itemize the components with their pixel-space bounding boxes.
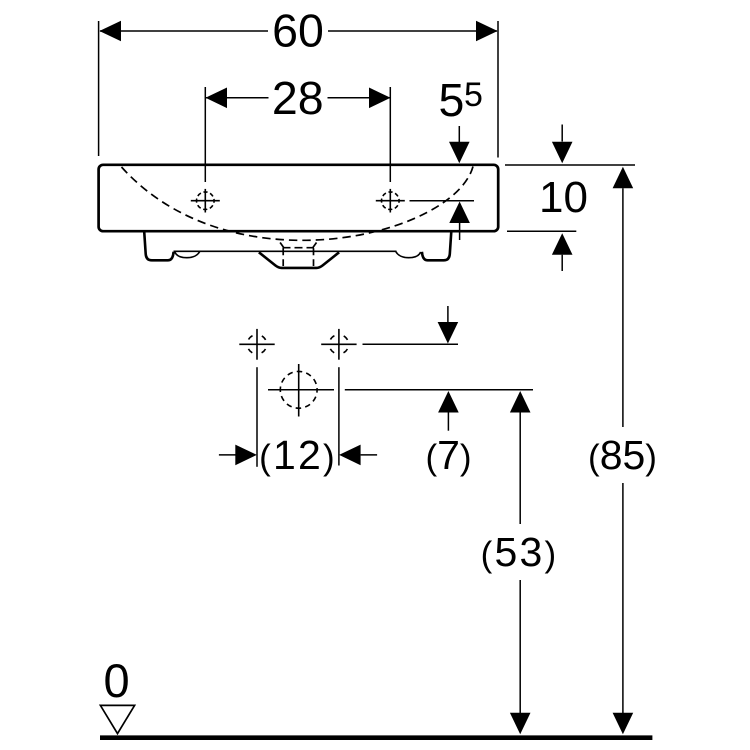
dimension (85) top arrowhead [613,167,634,189]
dimension 5.5 up arrowhead [449,202,470,224]
svg-text:(12): (12) [259,432,337,478]
washbasin body outline (front view) [99,165,499,231]
dimension (53) top arrowhead [510,391,531,413]
svg-text:(85): (85) [588,432,657,478]
dimension 60 left arrowhead [99,21,121,42]
dimension (7) up arrowhead [438,391,459,413]
dimension (7) down arrowhead [438,322,459,344]
dimension 10 lower arrow stem [561,255,563,271]
tap hole axis reference line [410,200,475,202]
dimension 28 left arrowhead [206,88,228,109]
underside right foot [422,232,451,261]
dimension 10 down arrowhead [552,142,573,164]
dimension 10 bottom extension line [507,230,576,232]
dimension 5.5 lower arrow stem [459,223,461,240]
dimension (7) upper arrow stem [447,306,449,324]
svg-text:28: 28 [272,72,324,124]
dimension (85) bottom arrowhead [613,713,634,735]
drain funnel hidden horizontal [283,247,315,249]
svg-text:(7): (7) [425,432,471,478]
dimension 10 top extension line [505,164,635,166]
dimension (12) left arrowhead [235,445,256,466]
dimension (12) left leader line [219,454,237,456]
drain funnel hidden right vertical [313,248,315,266]
dimension 28: extension and dimension lines [205,87,390,182]
basin interior dashed contour curve [122,167,474,241]
drain funnel hidden left vertical [282,248,284,266]
floor line [100,735,652,740]
dimension (7) lower arrow stem [447,413,449,431]
svg-text:10: 10 [539,173,588,222]
svg-text:60: 60 [272,4,324,56]
dimension 5.5 down arrowhead [449,142,470,164]
svg-text:(53): (53) [481,529,559,575]
wall fixing hole crosshair right [321,329,356,360]
underside left foot [144,232,173,261]
dimension 60 right arrowhead [476,21,498,42]
waste outlet crosshair [280,364,317,417]
tap hole crosshair right [376,189,405,213]
wall fixing hole crosshair left [239,329,274,360]
dimension 5.5 upper arrow stem [458,126,460,143]
drain funnel right slant [312,243,316,249]
left rim lip detail [175,251,200,257]
svg-text:5: 5 [439,74,465,126]
underside ledge line [174,250,397,252]
drain funnel left slant [280,243,284,249]
dimension 28 right arrowhead [369,88,391,109]
dimension (12) left extension line [256,367,258,467]
svg-text:0: 0 [104,654,130,707]
dimension 10 up arrowhead [552,233,573,255]
dimension 60: extension and dimension lines [99,21,498,158]
datum triangle [100,705,134,733]
dimension (85) upper line [622,188,624,427]
waste outlet axis reference line right segment [345,389,533,391]
dimension (53) upper line [519,413,521,525]
svg-text:5: 5 [464,76,483,114]
drain boss trapezoid [259,252,339,268]
dimension (12) right arrowhead [339,445,361,466]
dimension (53) lower line [519,580,521,713]
right rim lip detail [396,251,421,257]
waste outlet axis reference line left segment [268,389,334,391]
dimension (85) lower line [622,483,624,713]
dimension (12) right extension line [338,367,340,465]
fixing hole axis reference line [363,343,459,345]
dimension 10 upper arrow stem [561,125,563,142]
dimension (53) bottom arrowhead [510,713,531,735]
dimension (12) right leader line [361,454,378,456]
tap hole crosshair left [191,189,220,213]
